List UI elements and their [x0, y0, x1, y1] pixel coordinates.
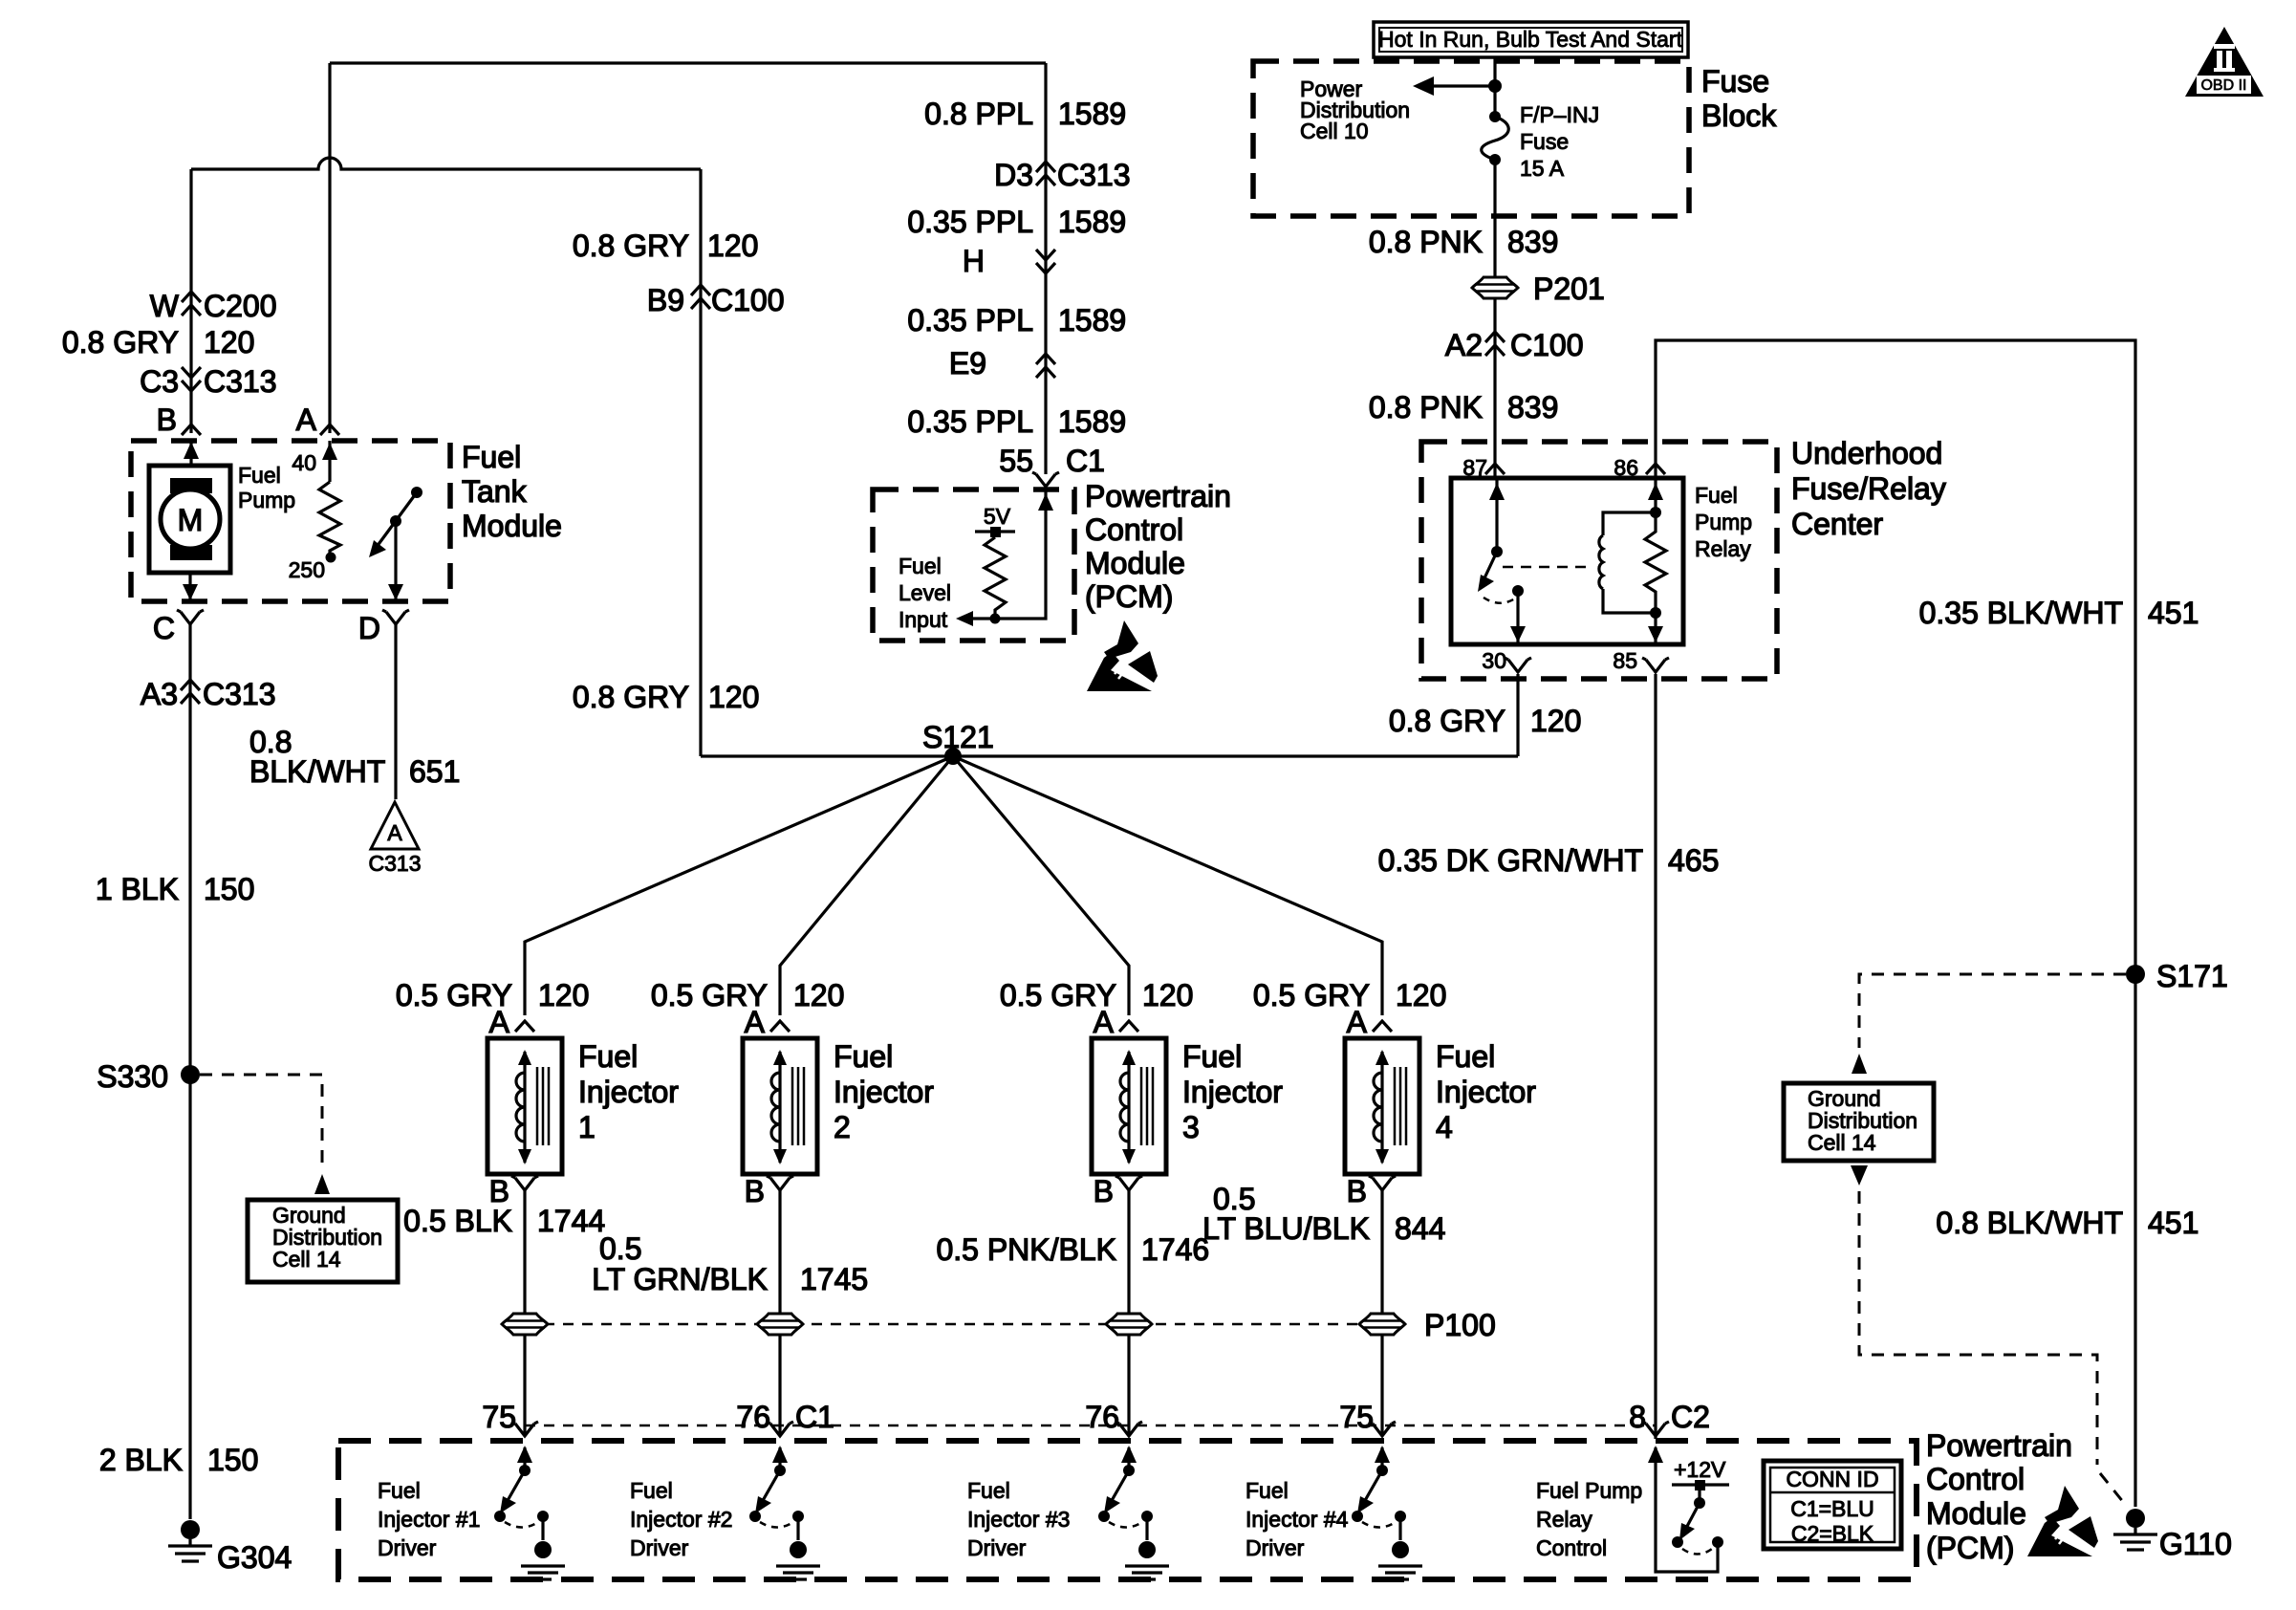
svg-text:0.8 BLK/WHT: 0.8 BLK/WHT — [1936, 1206, 2123, 1240]
svg-text:LT BLU/BLK: LT BLU/BLK — [1202, 1211, 1370, 1246]
svg-text:651: 651 — [409, 754, 460, 789]
svg-text:Module: Module — [1926, 1496, 2026, 1531]
svg-text:Driver: Driver — [630, 1535, 689, 1560]
svg-text:Fuel: Fuel — [1695, 483, 1738, 508]
svg-text:CONN ID: CONN ID — [1786, 1467, 1878, 1491]
svg-text:BLK/WHT: BLK/WHT — [249, 754, 385, 789]
svg-text:C313: C313 — [203, 677, 276, 711]
svg-text:Cell 14: Cell 14 — [1808, 1130, 1876, 1155]
svg-text:3: 3 — [1182, 1110, 1200, 1144]
svg-text:H: H — [963, 244, 985, 278]
svg-text:0.5 GRY: 0.5 GRY — [396, 978, 512, 1012]
svg-text:465: 465 — [1668, 843, 1719, 878]
svg-text:Center: Center — [1791, 507, 1883, 541]
svg-text:(PCM): (PCM) — [1085, 579, 1173, 614]
svg-text:C100: C100 — [711, 283, 785, 317]
svg-text:0.8 PNK: 0.8 PNK — [1369, 225, 1483, 259]
svg-text:1745: 1745 — [800, 1262, 868, 1296]
svg-text:Pump: Pump — [238, 488, 295, 512]
svg-text:Injector: Injector — [1436, 1075, 1536, 1109]
svg-text:Control: Control — [1085, 512, 1183, 547]
svg-text:1589: 1589 — [1058, 97, 1126, 131]
svg-text:Fuel Pump: Fuel Pump — [1536, 1478, 1642, 1503]
svg-text:S171: S171 — [2156, 959, 2228, 993]
svg-text:1746: 1746 — [1141, 1232, 1209, 1267]
svg-text:55: 55 — [999, 444, 1033, 478]
svg-text:C1: C1 — [795, 1400, 834, 1434]
svg-text:150: 150 — [207, 1443, 258, 1477]
svg-text:120: 120 — [793, 978, 844, 1012]
svg-text:Cell 10: Cell 10 — [1300, 119, 1369, 143]
svg-text:86: 86 — [1614, 455, 1638, 480]
svg-text:Fuel: Fuel — [967, 1478, 1010, 1503]
svg-text:4: 4 — [1436, 1110, 1453, 1144]
svg-text:0.35 BLK/WHT: 0.35 BLK/WHT — [1919, 596, 2123, 630]
svg-text:87: 87 — [1462, 455, 1487, 480]
svg-text:W: W — [150, 289, 180, 323]
svg-text:0.8 GRY: 0.8 GRY — [573, 680, 689, 714]
svg-text:A3: A3 — [141, 677, 178, 711]
svg-text:0.35 PPL: 0.35 PPL — [907, 205, 1033, 239]
svg-text:Injector: Injector — [578, 1075, 679, 1109]
svg-text:S121: S121 — [922, 720, 994, 754]
svg-text:Injector: Injector — [834, 1075, 934, 1109]
svg-text:C: C — [153, 611, 175, 645]
svg-text:2: 2 — [834, 1110, 851, 1144]
svg-text:40: 40 — [292, 450, 316, 475]
svg-text:Relay: Relay — [1536, 1507, 1592, 1532]
svg-text:120: 120 — [707, 228, 758, 263]
svg-text:C3: C3 — [140, 364, 179, 399]
svg-text:Injector #3: Injector #3 — [967, 1507, 1070, 1532]
svg-text:Fuel: Fuel — [462, 440, 521, 474]
svg-text:0.5 GRY: 0.5 GRY — [1000, 978, 1116, 1012]
svg-text:P100: P100 — [1424, 1308, 1496, 1342]
svg-text:Injector #4: Injector #4 — [1245, 1507, 1349, 1532]
svg-text:1589: 1589 — [1058, 303, 1126, 337]
svg-text:C100: C100 — [1510, 328, 1584, 362]
svg-text:120: 120 — [1142, 978, 1193, 1012]
svg-text:OBD II: OBD II — [2200, 77, 2246, 94]
svg-text:76: 76 — [1085, 1400, 1119, 1434]
svg-text:0.5 GRY: 0.5 GRY — [651, 978, 768, 1012]
svg-text:1: 1 — [578, 1110, 596, 1144]
svg-text:0.8 GRY: 0.8 GRY — [1389, 704, 1505, 738]
svg-text:D3: D3 — [994, 158, 1033, 192]
svg-text:1 BLK: 1 BLK — [96, 872, 179, 906]
svg-text:8: 8 — [1629, 1400, 1646, 1434]
svg-text:1744: 1744 — [537, 1204, 605, 1238]
svg-text:C2: C2 — [1671, 1400, 1710, 1434]
svg-text:Injector #1: Injector #1 — [378, 1507, 480, 1532]
svg-text:Powertrain: Powertrain — [1085, 479, 1231, 513]
svg-text:120: 120 — [1530, 704, 1581, 738]
svg-text:Control: Control — [1926, 1462, 2025, 1496]
svg-text:A2: A2 — [1445, 328, 1483, 362]
svg-text:C313: C313 — [369, 851, 422, 876]
svg-text:P201: P201 — [1533, 272, 1605, 306]
svg-text:Block: Block — [1701, 98, 1777, 133]
svg-text:451: 451 — [2148, 1206, 2199, 1240]
svg-text:0.35 PPL: 0.35 PPL — [907, 303, 1033, 337]
svg-text:0.5: 0.5 — [599, 1231, 641, 1266]
svg-text:0.5 PNK/BLK: 0.5 PNK/BLK — [936, 1232, 1116, 1267]
svg-text:15 A: 15 A — [1520, 156, 1565, 181]
svg-text:0.5 GRY: 0.5 GRY — [1253, 978, 1370, 1012]
svg-text:Input: Input — [899, 607, 948, 632]
svg-text:F/P–INJ: F/P–INJ — [1520, 102, 1599, 127]
svg-text:Driver: Driver — [967, 1535, 1027, 1560]
svg-text:Injector #2: Injector #2 — [630, 1507, 732, 1532]
svg-text:Pump: Pump — [1695, 510, 1752, 534]
svg-text:Fuel: Fuel — [630, 1478, 673, 1503]
svg-text:Tank: Tank — [462, 474, 528, 509]
svg-text:75: 75 — [482, 1400, 516, 1434]
svg-text:C200: C200 — [204, 289, 277, 323]
svg-text:Injector: Injector — [1182, 1075, 1283, 1109]
svg-text:30: 30 — [1482, 648, 1506, 673]
svg-text:451: 451 — [2148, 596, 2199, 630]
svg-text:839: 839 — [1507, 225, 1558, 259]
svg-text:120: 120 — [1396, 978, 1446, 1012]
svg-text:Fuse: Fuse — [1520, 129, 1569, 154]
svg-text:0.35 DK GRN/WHT: 0.35 DK GRN/WHT — [1378, 843, 1643, 878]
svg-text:150: 150 — [204, 872, 254, 906]
svg-text:Fuel: Fuel — [238, 463, 281, 488]
svg-text:75: 75 — [1339, 1400, 1374, 1434]
svg-text:1589: 1589 — [1058, 404, 1126, 439]
svg-text:Driver: Driver — [1245, 1535, 1305, 1560]
svg-text:120: 120 — [538, 978, 589, 1012]
svg-text:A: A — [296, 402, 317, 437]
svg-text:120: 120 — [204, 325, 254, 359]
svg-text:D: D — [358, 611, 380, 645]
svg-text:Module: Module — [462, 509, 562, 543]
svg-text:A: A — [387, 820, 402, 845]
svg-text:Fuel: Fuel — [578, 1039, 638, 1074]
svg-text:B: B — [157, 402, 177, 437]
svg-text:120: 120 — [708, 680, 759, 714]
svg-text:(PCM): (PCM) — [1926, 1531, 2014, 1565]
svg-text:Relay: Relay — [1695, 536, 1751, 561]
svg-text:B: B — [1347, 1174, 1367, 1208]
svg-text:Underhood: Underhood — [1791, 436, 1942, 470]
svg-text:+12V: +12V — [1674, 1457, 1726, 1482]
svg-text:LT GRN/BLK: LT GRN/BLK — [592, 1262, 768, 1296]
svg-text:B: B — [1094, 1174, 1114, 1208]
svg-text:0.5 BLK: 0.5 BLK — [403, 1204, 512, 1238]
svg-text:Driver: Driver — [378, 1535, 437, 1560]
svg-text:Fuel: Fuel — [899, 554, 942, 578]
svg-text:Level: Level — [899, 580, 951, 605]
svg-text:Fuel: Fuel — [1436, 1039, 1495, 1074]
svg-text:C313: C313 — [204, 364, 277, 399]
svg-text:0.8 GRY: 0.8 GRY — [573, 228, 689, 263]
svg-text:C1=BLU: C1=BLU — [1790, 1496, 1874, 1521]
svg-text:B9: B9 — [647, 283, 684, 317]
svg-text:G110: G110 — [2159, 1527, 2232, 1561]
svg-text:2 BLK: 2 BLK — [99, 1443, 183, 1477]
svg-text:M: M — [178, 503, 204, 537]
svg-text:0.35 PPL: 0.35 PPL — [907, 404, 1033, 439]
svg-text:Fuel: Fuel — [378, 1478, 421, 1503]
svg-text:0.8 PNK: 0.8 PNK — [1369, 390, 1483, 424]
svg-text:Fuel: Fuel — [834, 1039, 893, 1074]
svg-text:839: 839 — [1507, 390, 1558, 424]
svg-text:C313: C313 — [1057, 158, 1131, 192]
svg-text:S330: S330 — [97, 1059, 168, 1094]
svg-text:Cell 14: Cell 14 — [272, 1247, 341, 1272]
svg-text:Control: Control — [1536, 1535, 1607, 1560]
svg-text:E9: E9 — [949, 346, 986, 381]
svg-text:G304: G304 — [217, 1540, 292, 1575]
svg-text:844: 844 — [1395, 1211, 1445, 1246]
svg-text:Fuel: Fuel — [1182, 1039, 1242, 1074]
svg-text:Powertrain: Powertrain — [1926, 1428, 2072, 1463]
svg-text:76: 76 — [736, 1400, 770, 1434]
svg-text:B: B — [745, 1174, 765, 1208]
svg-text:Fuse: Fuse — [1701, 64, 1769, 98]
svg-text:0.8 PPL: 0.8 PPL — [924, 97, 1033, 131]
svg-text:Fuse/Relay: Fuse/Relay — [1791, 471, 1946, 506]
svg-text:5V: 5V — [984, 504, 1011, 529]
svg-text:250: 250 — [289, 557, 325, 582]
svg-text:Hot In Run, Bulb Test And Star: Hot In Run, Bulb Test And Start — [1378, 27, 1683, 52]
svg-text:C1: C1 — [1066, 444, 1105, 478]
svg-text:Module: Module — [1085, 546, 1185, 580]
svg-text:1589: 1589 — [1058, 205, 1126, 239]
svg-text:85: 85 — [1613, 648, 1637, 673]
svg-text:C2=BLK: C2=BLK — [1791, 1521, 1874, 1546]
svg-text:0.8 GRY: 0.8 GRY — [62, 325, 179, 359]
svg-text:Fuel: Fuel — [1245, 1478, 1289, 1503]
